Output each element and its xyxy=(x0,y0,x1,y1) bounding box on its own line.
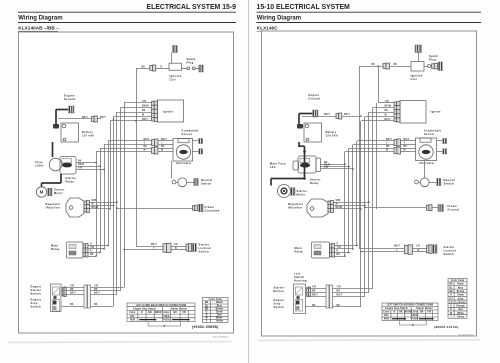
wire sensor 4 xyxy=(96,151,152,153)
wire main relay 4 xyxy=(335,256,346,258)
svg-text:BK/Y: BK/Y xyxy=(394,245,400,247)
svg-text:R: R xyxy=(90,251,92,253)
wire starter lockout xyxy=(360,248,405,250)
svg-text:Y/R: Y/R xyxy=(142,101,146,103)
svg-text:BK/Y: BK/Y xyxy=(344,114,350,116)
main relay contacts xyxy=(314,245,321,249)
svg-text:Alternator: Alternator xyxy=(176,161,192,165)
wire starter lockout lower xyxy=(124,249,163,251)
junction main relay 3 xyxy=(99,252,101,254)
svg-text:Battery12V 6Ah: Battery12V 6Ah xyxy=(82,131,94,137)
junction starter lockout xyxy=(360,251,362,253)
wire main relay 1 xyxy=(88,245,108,247)
spark plug terminal xyxy=(192,67,195,70)
svg-text:EngineGround: EngineGround xyxy=(309,93,321,101)
table switch connections xyxy=(127,303,195,322)
wire switch housing 1 xyxy=(306,288,327,290)
wire frame ground xyxy=(117,208,193,210)
wire igniter pin 3 xyxy=(117,112,152,114)
svg-text:Igniter: Igniter xyxy=(163,109,173,113)
svg-text:EngineStarterButton: EngineStarterButton xyxy=(31,285,42,296)
battery negative terminal xyxy=(63,138,66,141)
main fuse holder xyxy=(293,161,299,170)
svg-text:BK: BK xyxy=(337,254,341,256)
svg-text:BK/R: BK/R xyxy=(78,164,84,166)
wire igniter pin 5 xyxy=(110,120,152,122)
wire starter motor thick 3 xyxy=(271,178,305,180)
table color code xyxy=(203,298,229,323)
ground coil frame ground xyxy=(415,45,422,53)
table color code xyxy=(448,279,467,319)
svg-text:Wiring Diagram: Wiring Diagram xyxy=(257,16,301,22)
wire sensor to alternator 3 xyxy=(401,148,416,150)
page divider shadow xyxy=(248,0,250,363)
wire starter motor thick 1 xyxy=(299,145,305,147)
svg-text:Wiring Diagram: Wiring Diagram xyxy=(18,16,62,22)
wire main relay 3 xyxy=(88,252,100,254)
svg-text:BK/Y: BK/Y xyxy=(337,295,343,297)
wire sensor 1 xyxy=(357,140,394,142)
svg-text:BK/Y: BK/Y xyxy=(386,139,392,141)
fuse F1 10A xyxy=(300,158,310,162)
junction main relay 4 xyxy=(344,255,346,257)
ground starter motor xyxy=(291,188,296,196)
wire sensor 3 xyxy=(100,148,152,150)
wire regulator 1 xyxy=(90,202,118,204)
wire main relay 4 xyxy=(88,256,96,258)
svg-text:G: G xyxy=(90,244,92,246)
svg-text:StarterButton: StarterButton xyxy=(274,286,285,294)
junction regulator 2 xyxy=(364,205,366,207)
wire starter relay 1 xyxy=(321,164,346,166)
left page diagram frame xyxy=(19,32,234,333)
wire neutral switch drop xyxy=(424,161,426,178)
wire alternator ground upper xyxy=(193,140,199,142)
svg-text:BK: BK xyxy=(161,146,165,148)
spark plug connector xyxy=(432,63,438,69)
starter button contacts xyxy=(296,287,303,295)
wire regulator 3 xyxy=(90,208,111,210)
ground engine ground xyxy=(69,106,75,113)
wire regulator 2 xyxy=(90,205,114,207)
connector switch harness xyxy=(326,285,333,308)
regulator rectifier RR xyxy=(66,198,84,217)
wire neutral switch drop xyxy=(171,161,173,179)
switch housing SW xyxy=(51,284,62,312)
wire regulator 1 xyxy=(334,202,370,204)
ground neutral switch xyxy=(437,179,441,186)
wire igniter pin 1 xyxy=(124,102,152,104)
svg-text:Y/R: Y/R xyxy=(337,287,341,289)
igniter U1 xyxy=(400,101,426,124)
main relay MR xyxy=(67,242,84,258)
svg-text:Y/R: Y/R xyxy=(312,287,316,289)
alternator xyxy=(176,145,190,159)
table connection bars xyxy=(392,318,406,320)
svg-text:M: M xyxy=(40,190,44,195)
junction regulator 3 xyxy=(360,208,362,210)
svg-text:Y/R: Y/R xyxy=(94,286,98,288)
left page model underline xyxy=(18,30,58,32)
svg-text:W/B: W/B xyxy=(92,200,97,202)
connector sensor upper xyxy=(152,139,159,146)
connector sensor upper xyxy=(394,139,401,146)
alternator housing xyxy=(173,139,193,162)
wire harness tail 4 xyxy=(91,306,114,308)
svg-text:BK: BK xyxy=(312,305,316,307)
junction regulator 2 xyxy=(113,205,115,207)
svg-text:BK: BK xyxy=(90,254,94,256)
wire switch housing 2 xyxy=(306,292,327,294)
svg-text:BK: BK xyxy=(385,110,389,112)
starter motor M letter xyxy=(281,188,287,194)
svg-text:BK/W: BK/W xyxy=(336,207,343,209)
wire starter motor thick 2 xyxy=(304,146,306,178)
svg-text:BK/Y: BK/Y xyxy=(144,139,150,141)
alternator housing xyxy=(416,138,437,161)
alternator xyxy=(419,145,433,159)
wire sensor to alternator 1 xyxy=(401,140,416,142)
ground frame ground xyxy=(438,205,444,212)
starter relay inner contact blob xyxy=(300,163,310,168)
connector frame ground xyxy=(427,205,433,211)
svg-text:KLX140AB –/BB –: KLX140AB –/BB – xyxy=(18,25,59,30)
battery positive terminal blob xyxy=(53,124,59,129)
wire battery negative thick xyxy=(298,142,300,147)
spark plug cap xyxy=(187,67,190,70)
connector frame ground xyxy=(193,205,198,211)
wire neutral terminal link xyxy=(418,182,420,184)
svg-text:BK: BK xyxy=(78,161,82,163)
junction starter relay 2 xyxy=(99,165,101,167)
fuse F1 10A xyxy=(62,159,72,163)
wire harness bus 6 xyxy=(113,117,115,307)
svg-text:Regulator/Rectifier: Regulator/Rectifier xyxy=(46,202,61,210)
junction igniter/ignition xyxy=(135,120,137,122)
connector starter lockout xyxy=(163,243,171,253)
junction main relay 2 xyxy=(352,248,354,250)
junction main relay 1 xyxy=(107,245,109,247)
svg-text:Alternator: Alternator xyxy=(419,161,435,165)
ground starter lockout xyxy=(433,245,438,254)
battery negative terminal xyxy=(306,138,309,141)
wire harness tail 3 xyxy=(333,296,366,298)
right page diagram frame xyxy=(262,31,477,336)
junction frame ground xyxy=(364,207,366,209)
wire sensor to alternator 4 xyxy=(401,151,416,153)
svg-text:BK: BK xyxy=(404,146,408,148)
junction frame ground xyxy=(116,207,118,209)
ground neutral switch xyxy=(194,179,198,186)
wire sensor 3 xyxy=(349,148,394,150)
neutral switch terminal xyxy=(172,180,176,184)
crankshaft sensor CS xyxy=(420,138,431,142)
starter button contacts xyxy=(53,287,60,295)
svg-text:BR: BR xyxy=(312,291,316,293)
wire regulator 3 xyxy=(334,208,362,210)
svg-text:BK/Y: BK/Y xyxy=(142,119,148,121)
igniter U1 xyxy=(158,100,184,122)
table ganged bracket xyxy=(399,321,426,326)
junction main relay 1 xyxy=(356,245,358,247)
right page header rule 1 xyxy=(257,11,482,13)
wire switch housing 2 xyxy=(61,290,84,292)
svg-text:BK: BK xyxy=(372,64,376,66)
wire harness tail 2 xyxy=(333,292,370,294)
wire coil to plug xyxy=(424,66,428,68)
main relay contacts xyxy=(69,245,76,249)
left page header rule 1 xyxy=(18,11,236,13)
svg-text:BR: BR xyxy=(70,289,74,291)
wire switch housing 1 xyxy=(61,287,84,289)
connector switch housing pigtail xyxy=(62,287,66,297)
junction coil drop xyxy=(377,65,379,67)
wire battery positive feed xyxy=(302,116,361,118)
spark plug cap xyxy=(428,65,431,68)
svg-text:NeutralSwitch: NeutralSwitch xyxy=(201,178,212,186)
ground frame ground xyxy=(199,204,204,212)
connector switch housing pigtail xyxy=(307,287,311,297)
junction starter lockout xyxy=(123,249,125,251)
starter relay body xyxy=(49,158,62,171)
svg-text:BK/Y: BK/Y xyxy=(100,117,106,119)
wire starter motor thick 4 xyxy=(270,179,272,186)
svg-text:BK/Y: BK/Y xyxy=(385,119,391,121)
wire harness bus 2 xyxy=(348,148,350,253)
svg-text:NeutralSwitch: NeutralSwitch xyxy=(444,178,455,186)
svg-text:BK/W: BK/W xyxy=(92,207,99,209)
wire coil ground lead xyxy=(171,53,173,64)
svg-text:BK: BK xyxy=(386,146,390,148)
svg-text:BK/Y: BK/Y xyxy=(324,114,330,116)
spark plug xyxy=(438,62,443,71)
wire switch housing 4 xyxy=(61,306,84,308)
wire engine ground thick 1 xyxy=(299,113,313,115)
svg-text:BK/Y: BK/Y xyxy=(404,139,410,141)
engine stop switch contacts xyxy=(296,300,303,312)
starter relay inner contact blob xyxy=(62,163,72,168)
junction starter relay 3 xyxy=(103,169,105,171)
ground alternator upper xyxy=(443,139,447,144)
wire harness tail 2 xyxy=(91,290,121,292)
regulator connector xyxy=(328,201,334,213)
regulator mounting hole xyxy=(69,206,73,210)
connector coil lead xyxy=(150,65,156,71)
svg-text:Igniter: Igniter xyxy=(431,109,441,113)
alternator rotor blob xyxy=(422,150,430,154)
switch housing SW xyxy=(294,284,306,314)
wire sensor 4 xyxy=(345,151,394,153)
wire harness bus 5 xyxy=(360,121,362,307)
svg-text:EngineGround: EngineGround xyxy=(64,94,76,102)
wire coil left b xyxy=(136,68,150,70)
wire coil left a xyxy=(390,66,412,68)
wire battery negative thick xyxy=(52,142,54,157)
svg-text:BK/W: BK/W xyxy=(385,106,392,108)
wire harness bus 1 xyxy=(96,152,98,257)
wire igniter pin 4 xyxy=(114,116,152,118)
engine stop switch contacts xyxy=(53,300,60,312)
wire sensor 1 xyxy=(108,140,152,142)
svg-text:BK: BK xyxy=(70,304,74,306)
wire igniter pin 3 xyxy=(369,112,394,114)
svg-text:BK/Y: BK/Y xyxy=(94,293,100,295)
svg-text:W/B: W/B xyxy=(336,200,341,202)
junction starter relay 1 xyxy=(95,162,97,164)
wire ignition main vertical xyxy=(136,68,138,246)
connector switch harness xyxy=(84,285,91,308)
wire plug lead xyxy=(195,68,199,70)
ground alternator upper xyxy=(199,139,203,144)
svg-text:ELECTRICAL SYSTEM 15-9: ELECTRICAL SYSTEM 15-9 xyxy=(147,4,237,11)
svg-text:BR: BR xyxy=(94,289,98,291)
junction starter relay feed xyxy=(303,150,306,153)
battery positive terminal blob xyxy=(297,124,303,129)
svg-text:BK/Y: BK/Y xyxy=(151,244,157,246)
wire main relay 2 xyxy=(88,248,104,250)
neutral switch NS xyxy=(420,178,429,187)
ground alternator lower xyxy=(199,149,203,154)
svg-text:90-1234570 A: 90-1234570 A xyxy=(458,334,473,337)
starter relay SR xyxy=(60,157,76,175)
svg-text:15-10 ELECTRICAL SYSTEM: 15-10 ELECTRICAL SYSTEM xyxy=(257,4,351,11)
junction regulator 1 xyxy=(368,201,370,203)
junction regulator 1 xyxy=(116,201,118,203)
wire harness bus 3 xyxy=(104,145,106,250)
svg-text:R: R xyxy=(337,251,339,253)
neutral switch terminal xyxy=(415,180,419,184)
svg-text:Regulator/Rectifier: Regulator/Rectifier xyxy=(288,202,303,210)
wire switch housing 4 xyxy=(306,306,327,308)
main relay connector xyxy=(83,244,88,258)
wire harness bus 7 xyxy=(116,112,118,295)
wire starter motor thick 3 xyxy=(41,183,43,187)
wire igniter pin 1 xyxy=(378,102,394,104)
svg-text:BK: BK xyxy=(94,304,98,306)
svg-text:(96052-1215A): (96052-1215A) xyxy=(434,325,459,329)
wire harness bus 3 xyxy=(352,145,354,250)
wire alternator ground upper xyxy=(437,140,443,142)
wire engine ground thick 2 xyxy=(298,114,300,125)
wire main relay 2 xyxy=(335,248,354,250)
wire main relay 3 xyxy=(335,252,350,254)
wire harness bus 8 xyxy=(372,108,374,289)
starter lockout switch SL xyxy=(186,244,192,252)
wire starter relay 2 xyxy=(76,166,100,168)
wire sensor to alternator 3 xyxy=(158,148,173,150)
junction battery bus xyxy=(113,118,115,120)
wire starter motor thick 1 xyxy=(60,174,62,183)
junction battery bus xyxy=(360,115,362,117)
right page bottom edge shadow xyxy=(258,339,480,342)
crankshaft sensor CS xyxy=(178,139,189,143)
connector sensor lower xyxy=(394,147,401,154)
right page header rule 2 xyxy=(257,22,482,24)
wire coil left b xyxy=(360,66,384,68)
wire frame ground stub xyxy=(432,207,438,209)
connector battery lead xyxy=(92,116,98,122)
wire starter relay 3 xyxy=(76,169,104,171)
svg-text:G: G xyxy=(337,244,339,246)
table ganged bracket xyxy=(148,322,181,327)
svg-text:Y/R: Y/R xyxy=(78,168,82,170)
svg-text:Battery12V 6Ah: Battery12V 6Ah xyxy=(326,131,338,137)
junction starter relay 3 xyxy=(352,168,354,170)
regulator mounting hole xyxy=(310,207,314,211)
left page bottom edge shadow xyxy=(8,342,232,343)
wire harness bus 7 xyxy=(368,112,370,293)
wire harness bus 6 xyxy=(364,117,366,297)
wire starter relay 1 xyxy=(76,162,96,164)
wire sensor to alternator 1 xyxy=(158,140,173,142)
main relay connector xyxy=(330,244,335,258)
junction main relay 4 xyxy=(95,255,97,257)
regulator rectifier RR xyxy=(307,199,328,217)
wire neutral switch ground xyxy=(187,182,194,184)
wire starter relay 2 xyxy=(321,166,350,168)
right page model underline xyxy=(257,30,291,32)
wire switch housing 3 xyxy=(61,294,84,296)
wire sensor to alternator 2 xyxy=(401,144,416,146)
wire main relay 1 xyxy=(335,245,358,247)
wire sensor 2 xyxy=(104,144,152,146)
junction main relay 3 xyxy=(348,252,350,254)
neutral switch NS xyxy=(178,178,187,187)
junction main relay 2 xyxy=(103,248,105,250)
wire coil ground lead xyxy=(418,53,420,62)
wire starter lockout b xyxy=(171,246,186,248)
wire harness tail 3 xyxy=(91,294,118,296)
wire coil left a xyxy=(156,68,169,70)
wire harness bus 2 xyxy=(100,148,102,253)
wire harness bus 9 xyxy=(376,103,378,209)
starter relay cap xyxy=(316,158,321,172)
wire harness bus 1 xyxy=(344,152,346,257)
ignition coil xyxy=(169,63,182,70)
svg-text:Y/R: Y/R xyxy=(385,101,389,103)
wire starter lockout lower b xyxy=(413,251,427,253)
ground alternator lower xyxy=(443,149,447,154)
svg-text:BK: BK xyxy=(144,146,148,148)
wire starter lockout b xyxy=(413,248,427,250)
wire alternator ground lower xyxy=(193,151,199,153)
junction regulator 3 xyxy=(109,208,111,210)
wire harness tail 1 xyxy=(333,288,374,290)
svg-text:BK: BK xyxy=(337,305,341,307)
svg-text:Fuse(10A): Fuse(10A) xyxy=(36,160,44,168)
wire starter lockout xyxy=(136,246,163,248)
wire frame ground xyxy=(365,207,427,209)
svg-text:Y/G: Y/G xyxy=(174,244,178,246)
wire sensor to alternator 4 xyxy=(158,151,173,153)
wire harness bus 4 xyxy=(356,141,358,246)
connector coil lead xyxy=(383,63,390,69)
ignition coil xyxy=(411,62,424,72)
starter motor M1 xyxy=(278,185,291,198)
wire alternator ground lower xyxy=(437,151,443,153)
wire harness tail 1 xyxy=(91,287,125,289)
svg-text:Y/R: Y/R xyxy=(324,167,328,169)
wire coil to igniter drop xyxy=(378,66,380,103)
ground coil frame ground xyxy=(172,46,177,53)
svg-text:KLX140C: KLX140C xyxy=(257,25,278,30)
wire battery positive feed xyxy=(58,118,101,120)
igniter connector xyxy=(394,102,400,123)
svg-text:BK/W: BK/W xyxy=(142,106,149,108)
wire coil to plug xyxy=(182,68,188,70)
svg-text:Y/R: Y/R xyxy=(70,286,74,288)
svg-text:Y/G: Y/G xyxy=(416,245,420,247)
